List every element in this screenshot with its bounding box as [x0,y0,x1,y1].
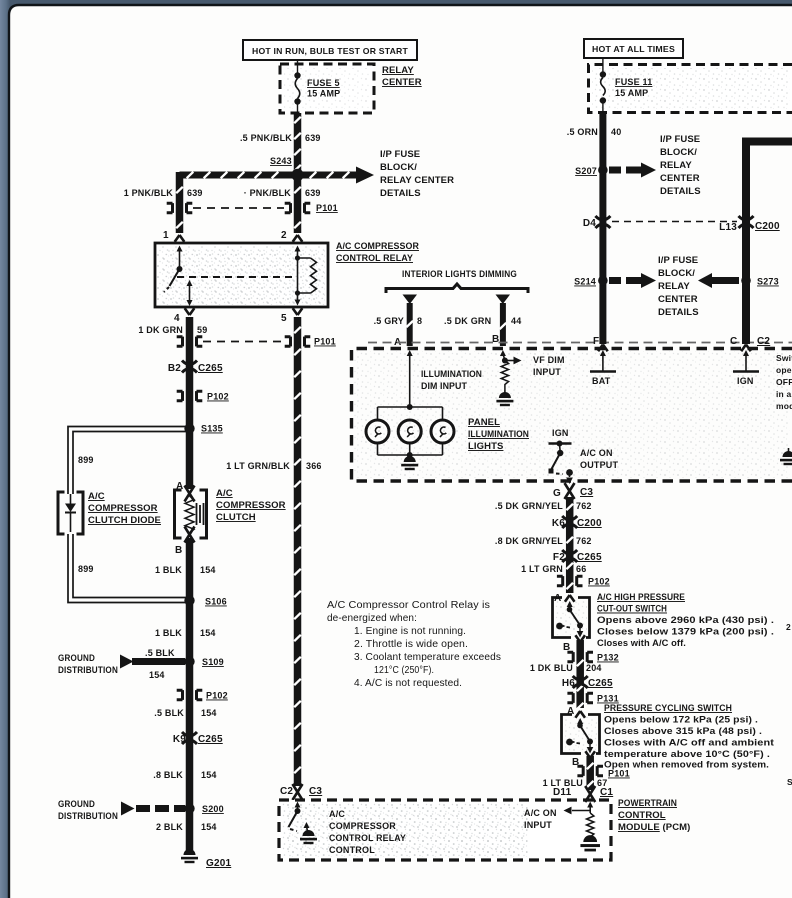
svg-text:BAT: BAT [592,376,611,386]
ground (right edge, cut) [780,448,792,465]
svg-text:BLOCK/: BLOCK/ [658,268,695,279]
wire A stub [406,303,414,346]
svg-text:· PNK/BLK: · PNK/BLK [244,188,292,198]
svg-text:DIM INPUT: DIM INPUT [421,381,467,392]
label ILLUMINATION DIM INPUT [421,369,482,392]
ground G201 [181,849,232,869]
svg-text:639: 639 [187,188,203,198]
pin arrow A (inside) [407,350,413,407]
svg-text:P101: P101 [316,203,338,213]
svg-text:CENTER: CENTER [660,173,700,184]
svg-text:S273: S273 [757,277,779,287]
svg-text:1 DK BLU: 1 DK BLU [530,663,573,673]
svg-text:121°C (250°F).: 121°C (250°F). [374,665,434,676]
svg-text:639: 639 [305,133,321,143]
label .5 DK GRN/YEL 762 [495,501,592,511]
svg-text:COMPRESSOR: COMPRESSOR [216,500,286,511]
svg-text:S214: S214 [574,277,596,287]
triangle pin B feed [496,295,511,305]
svg-text:C200: C200 [577,518,602,529]
wire pin5 down to C2/C3 [293,317,301,786]
node S106 [184,595,227,606]
fuse F11 symbol [600,58,606,113]
wire diode loop (thin double line) [68,427,190,603]
label A/C COMPRESSOR CLUTCH [216,488,286,523]
svg-text:CONTROL: CONTROL [329,845,375,855]
svg-text:1: 1 [163,230,169,241]
svg-text:RELAY: RELAY [660,160,692,171]
svg-text:K9: K9 [173,734,186,745]
connector P102 row 2 [177,690,228,700]
svg-text:H6: H6 [562,678,575,689]
svg-text:S200: S200 [202,804,224,814]
svg-text:P132: P132 [597,653,619,663]
svg-text:A/C COMPRESSOR: A/C COMPRESSOR [336,241,419,252]
svg-text:S106: S106 [205,597,227,607]
label FUSE 5 / 15 AMP [307,78,340,99]
label A/C ON INPUT (inside PCM) [524,808,557,830]
svg-text:G: G [553,488,561,499]
svg-text:1 BLK: 1 BLK [155,628,182,638]
connector P102 (right) [557,576,610,586]
svg-text:P102: P102 [207,392,229,402]
label .5 PNK/BLK 639 [240,133,321,143]
fuse box FUSE 11 (dashed) [589,65,792,113]
svg-text:366: 366 [306,461,322,471]
triangle pin A feed [403,295,418,305]
pins C2 C3 into PCM [280,784,322,800]
pin arrow C / IGN (feed) [733,345,759,387]
svg-text:204: 204 [586,663,602,673]
svg-text:.5 ORN: .5 ORN [567,127,598,137]
node S207 + arrow [575,163,656,178]
label GROUND DISTRIBUTION (upper) [58,653,118,675]
svg-text:C3: C3 [309,786,322,797]
svg-text:P131: P131 [597,694,619,704]
label A/C COMPRESSOR CLUTCH DIODE [88,491,161,526]
wire forks leaving relay [185,308,195,315]
label 2 BLK 154 [156,822,217,832]
svg-text:MODULE (PCM): MODULE (PCM) [618,822,690,833]
bracket over wires [386,284,528,293]
wire G down to A (highlighted) [566,497,574,593]
connector P132 [567,652,618,662]
pins D11 C1 [553,786,613,802]
svg-text:GROUND: GROUND [58,653,95,663]
node S273 + arrow left [698,273,779,288]
label .5 BLK / 154 [145,648,175,680]
svg-text:DISTRIBUTION: DISTRIBUTION [58,811,118,821]
svg-text:S243: S243 [270,156,292,166]
svg-text:639: 639 [305,188,321,198]
svg-text:BLOCK/: BLOCK/ [660,147,697,158]
svg-text:C1: C1 [600,787,613,798]
svg-text:A/C: A/C [216,488,233,499]
svg-text:1 DK GRN: 1 DK GRN [138,325,183,335]
label A/C COMPRESSOR CONTROL RELAY CONTROL [329,809,406,855]
svg-text:.5 BLK: .5 BLK [145,648,175,658]
svg-text:COMPRESSOR: COMPRESSOR [88,503,158,514]
wire to relay pin 1 (thick highlighted) [175,172,183,233]
node S214 + arrow [574,273,656,288]
svg-text:CENTER: CENTER [382,77,422,88]
label I/P FUSE BLOCK/RELAY CENTER DETAILS (S207) [660,134,701,197]
svg-text:1 PNK/BLK: 1 PNK/BLK [124,188,174,198]
svg-text:P101: P101 [608,769,630,779]
svg-text:40: 40 [611,127,621,137]
svg-text:LIGHTS: LIGHTS [468,441,503,452]
svg-text:.8 DK GRN/YEL: .8 DK GRN/YEL [495,536,563,546]
svg-text:G201: G201 [206,858,232,869]
switch pressure cycling [562,711,600,754]
connector K9 C265 [173,732,223,745]
node S109 [184,656,224,667]
label 1 BLK 154 (above S106) [155,565,216,575]
svg-text:66: 66 [576,564,586,574]
svg-text:2: 2 [786,622,791,632]
svg-text:Opens below 172 kPa (25 psi) .: Opens below 172 kPa (25 psi) . [604,715,758,726]
svg-text:2 BLK: 2 BLK [156,822,183,832]
svg-text:PRESSURE CYCLING SWITCH: PRESSURE CYCLING SWITCH [604,703,732,714]
svg-text:A/C: A/C [88,491,105,502]
diode A/C compressor clutch diode [58,492,83,534]
svg-text:ILLUMINATION: ILLUMINATION [421,369,482,380]
svg-text:CLUTCH DIODE: CLUTCH DIODE [88,515,161,526]
label A/C ON OUTPUT [580,448,619,470]
svg-text:5: 5 [281,313,287,324]
node S135 [184,423,223,433]
svg-text:DISTRIBUTION: DISTRIBUTION [58,665,118,675]
svg-text:I/P FUSE: I/P FUSE [380,149,420,160]
svg-text:ILLUMINATION: ILLUMINATION [468,429,529,440]
label 1 LT GRN 66 [521,564,586,574]
svg-text:C2: C2 [757,336,770,347]
label 1 BLK 154 (below S106) [155,628,216,638]
component A/C compressor clutch [175,486,207,543]
label .8 DK GRN/YEL 762 [495,536,592,546]
svg-text:RELAY: RELAY [382,65,414,76]
svg-text:15 AMP: 15 AMP [307,89,340,99]
wire forks entering relay [175,235,185,242]
node S200 [184,803,224,814]
svg-text:4. A/C is not requested.: 4. A/C is not requested. [354,678,462,689]
connector P102 [177,391,229,401]
switch a/c compressor control relay control (inside PCM) [289,802,318,845]
svg-text:59: 59 [197,325,207,335]
relay switch (pins 1-4) [164,246,193,307]
svg-text:mod: mod [776,401,792,411]
box HOT IN RUN, BULB TEST OR START [243,40,417,60]
box dashed control head [352,343,792,482]
svg-text:4: 4 [174,313,180,324]
svg-text:IGN: IGN [737,376,754,386]
svg-text:RELAY: RELAY [658,281,690,292]
svg-text:154: 154 [200,628,216,638]
svg-text:A/C Compressor Control Relay i: A/C Compressor Control Relay is [327,600,490,611]
svg-text:PANEL: PANEL [468,417,500,428]
svg-text:HOT IN RUN, BULB TEST OR START: HOT IN RUN, BULB TEST OR START [252,46,409,56]
relay coil (pins 2-5) [295,246,317,306]
svg-text:GROUND: GROUND [58,799,95,809]
label RELAY CENTER [382,65,422,88]
pin G / C3 [553,483,593,499]
wire B down to D11 (highlighted) [585,751,595,790]
connector D4 - L13 C200 [583,216,780,233]
svg-text:I/P FUSE: I/P FUSE [660,134,700,145]
svg-text:899: 899 [78,455,94,465]
connector K6 C200 [552,516,602,529]
svg-text:I/P FUSE: I/P FUSE [658,255,698,266]
svg-text:POWERTRAIN: POWERTRAIN [618,798,677,809]
panel illumination lamps [366,404,454,470]
svg-text:OUTPUT: OUTPUT [580,460,619,470]
label A/C COMPRESSOR CONTROL RELAY [336,241,419,264]
svg-text:D11: D11 [553,787,572,798]
svg-text:CONTROL: CONTROL [618,810,666,821]
svg-text:open: open [776,365,792,375]
svg-text:CENTER: CENTER [658,294,698,305]
svg-text:1 BLK: 1 BLK [155,565,182,575]
label 1 DK BLU 204 [530,663,602,673]
svg-text:C2: C2 [280,786,293,797]
svg-text:F: F [593,336,599,347]
svg-text:FUSE 5: FUSE 5 [307,78,340,88]
svg-text:762: 762 [576,501,592,511]
svg-text:44: 44 [511,316,521,326]
svg-text:8: 8 [417,316,422,326]
label PRESSURE CYCLING SWITCH + notes [604,703,775,771]
label VF DIM INPUT [533,355,565,377]
connector P101 (right) [577,766,629,778]
relay mechanical link (dashed) [177,276,293,278]
svg-text:de-energized when:: de-energized when: [327,613,417,624]
svg-text:.8 BLK: .8 BLK [153,770,183,780]
svg-text:154: 154 [201,822,217,832]
connector P101 row (between pin1 and pin2 wires) [167,203,338,213]
svg-text:.5 GRY: .5 GRY [374,316,404,326]
relay box [155,243,328,307]
label .5 DK GRN 44 [444,316,521,326]
svg-text:CUT-OUT SWITCH: CUT-OUT SWITCH [597,604,667,615]
svg-text:.5 BLK: .5 BLK [154,708,184,718]
box HOT AT ALL TIMES [584,39,683,58]
svg-text:INTERIOR LIGHTS DIMMING: INTERIOR LIGHTS DIMMING [402,269,517,279]
svg-text:P102: P102 [206,691,228,701]
wire L13 feed from right edge [746,142,792,345]
svg-text:P101: P101 [314,337,336,347]
wire fuse11 down to F pin (solid thick) [599,113,606,344]
svg-text:COMPRESSOR: COMPRESSOR [329,821,396,831]
svg-text:CONTROL RELAY: CONTROL RELAY [336,253,414,264]
label I/P FUSE BLOCK/RELAY CENTER DETAILS (S214) [658,255,699,318]
svg-text:S135: S135 [201,424,223,434]
svg-text:B: B [175,545,182,556]
label 1 PNK/BLK 639 (pin 1) [124,188,203,198]
svg-text:C265: C265 [588,678,613,689]
svg-text:899: 899 [78,564,94,574]
svg-text:P102: P102 [588,577,610,587]
wire pin4 down to G201 [186,317,194,489]
pin arrow B / VF DIM INPUT [496,350,521,406]
label FUSE 11 / 15 AMP [615,77,652,98]
wire dashed ground distribution arrow to S200 [121,802,185,816]
label PANEL ILLUMINATION LIGHTS [468,417,529,452]
wire ground distribution arrow to S109 [120,655,185,669]
svg-text:3. Coolant temperature exceed: 3. Coolant temperature exceeds [354,652,501,663]
wire to relay pin 2 (thick highlighted) [293,178,301,233]
svg-text:DETAILS: DETAILS [660,186,701,197]
svg-text:S207: S207 [575,166,597,176]
svg-text:154: 154 [200,565,216,575]
wire S243 horizontal run to arrow [180,167,375,184]
svg-text:15 AMP: 15 AMP [615,88,648,98]
switch IGN / A/C ON OUTPUT [549,428,573,484]
switch A/C high pressure cut-out [553,595,590,638]
connector P131 [567,693,618,703]
svg-text:C3: C3 [580,487,593,498]
svg-text:B2: B2 [168,363,181,374]
wire fuse5 to S243 (thick, highlighted) [293,113,301,175]
connector B2 C265 [168,361,223,375]
svg-text:Closes above 315 kPa (48 psi): Closes above 315 kPa (48 psi) . [604,726,762,737]
svg-text:Switc: Switc [776,353,792,363]
wire B down to A (cycling) highlighted [575,635,585,710]
pin label C / C2 [730,336,770,347]
svg-text:.5 DK GRN/YEL: .5 DK GRN/YEL [495,501,563,511]
fuse F5 symbol [294,60,300,113]
connector F2 C265 [553,550,602,563]
svg-text:C200: C200 [755,221,780,232]
svg-text:154: 154 [201,708,217,718]
label .5 ORN 40 [567,127,622,137]
svg-text:K6: K6 [552,518,565,529]
svg-text:Closes below 1379 kPa (200 psi: Closes below 1379 kPa (200 psi) . [597,627,774,638]
svg-text:B: B [492,334,499,345]
label .5 BLK 154 [154,708,216,718]
node S243 junction dot [291,169,303,181]
svg-text:C: C [730,336,737,347]
svg-text:Closes with A/C off.: Closes with A/C off. [597,638,686,649]
svg-text:1 LT GRN: 1 LT GRN [521,564,563,574]
svg-text:L13: L13 [719,222,737,233]
svg-text:A/C ON: A/C ON [580,448,613,458]
svg-text:BLOCK/: BLOCK/ [380,162,417,173]
svg-text:IGN: IGN [552,428,569,438]
label A/C HIGH PRESSURE CUT-OUT SWITCH + notes [597,592,774,649]
svg-text:INPUT: INPUT [524,820,552,830]
svg-text:INPUT: INPUT [533,367,561,377]
svg-text:S109: S109 [202,657,224,667]
svg-text:A/C HIGH PRESSURE: A/C HIGH PRESSURE [597,592,685,603]
label 1 PNK/BLK 639 (pin 2) [244,188,321,198]
label 1 LT GRN/BLK 366 [226,461,321,471]
svg-text:2: 2 [281,230,287,241]
svg-text:1. Engine is not running.: 1. Engine is not running. [354,626,466,637]
svg-text:OFF: OFF [776,377,792,387]
label .8 BLK 154 [153,770,216,780]
label .5 GRY 8 [374,316,423,326]
svg-text:in all: in all [776,389,792,399]
svg-text:VF DIM: VF DIM [533,355,565,365]
pin arrow F / BAT [590,345,616,387]
resistor to ground inside PCM (a/c on input) [564,802,600,852]
text right edge (cut off) [776,353,792,411]
fuse box FUSE 5 (dashed, relay center) [280,64,374,113]
label GROUND DISTRIBUTION (lower) [58,799,118,821]
label I/P FUSE BLOCK/RELAY CENTER DETAILS (left) [380,149,454,199]
svg-text:temperature above 10°C (50°F): temperature above 10°C (50°F) . [604,749,770,760]
connector H6 C265 [562,676,613,689]
svg-text:2. Throttle is wide open.: 2. Throttle is wide open. [354,639,468,650]
label POWERTRAIN CONTROL MODULE (PCM) [618,798,690,833]
svg-text:CONTROL RELAY: CONTROL RELAY [329,833,406,843]
svg-text:A/C: A/C [329,809,345,819]
box powertrain control module (dashed) [279,800,611,860]
label 1 DK GRN 59 [138,325,207,335]
svg-text:F2: F2 [553,552,565,563]
svg-text:DETAILS: DETAILS [380,188,421,199]
svg-text:154: 154 [149,670,165,680]
svg-text:HOT AT ALL TIMES: HOT AT ALL TIMES [592,44,675,54]
svg-text:Closes with A/C off and ambien: Closes with A/C off and ambient [604,738,775,749]
svg-text:.5 DK GRN: .5 DK GRN [444,316,491,326]
svg-text:C265: C265 [198,363,223,374]
svg-text:762: 762 [576,536,592,546]
svg-text:A/C ON: A/C ON [524,808,557,818]
label 1 LT BLU 67 [543,778,608,788]
svg-text:C265: C265 [198,734,223,745]
svg-text:Opens above 2960 kPa (430 psi): Opens above 2960 kPa (430 psi) . [597,615,774,626]
svg-text:S: S [787,777,792,787]
svg-text:.5 PNK/BLK: .5 PNK/BLK [240,133,292,143]
svg-text:RELAY CENTER: RELAY CENTER [380,175,454,186]
svg-text:C265: C265 [577,552,602,563]
connector P101 row 2 [177,337,336,347]
svg-text:154: 154 [201,770,217,780]
wire B stub [499,303,507,346]
svg-text:CLUTCH: CLUTCH [216,512,256,523]
svg-text:D4: D4 [583,218,596,229]
svg-text:DETAILS: DETAILS [658,307,699,318]
svg-text:FUSE 11: FUSE 11 [615,77,652,87]
svg-text:1 LT GRN/BLK: 1 LT GRN/BLK [226,461,290,471]
